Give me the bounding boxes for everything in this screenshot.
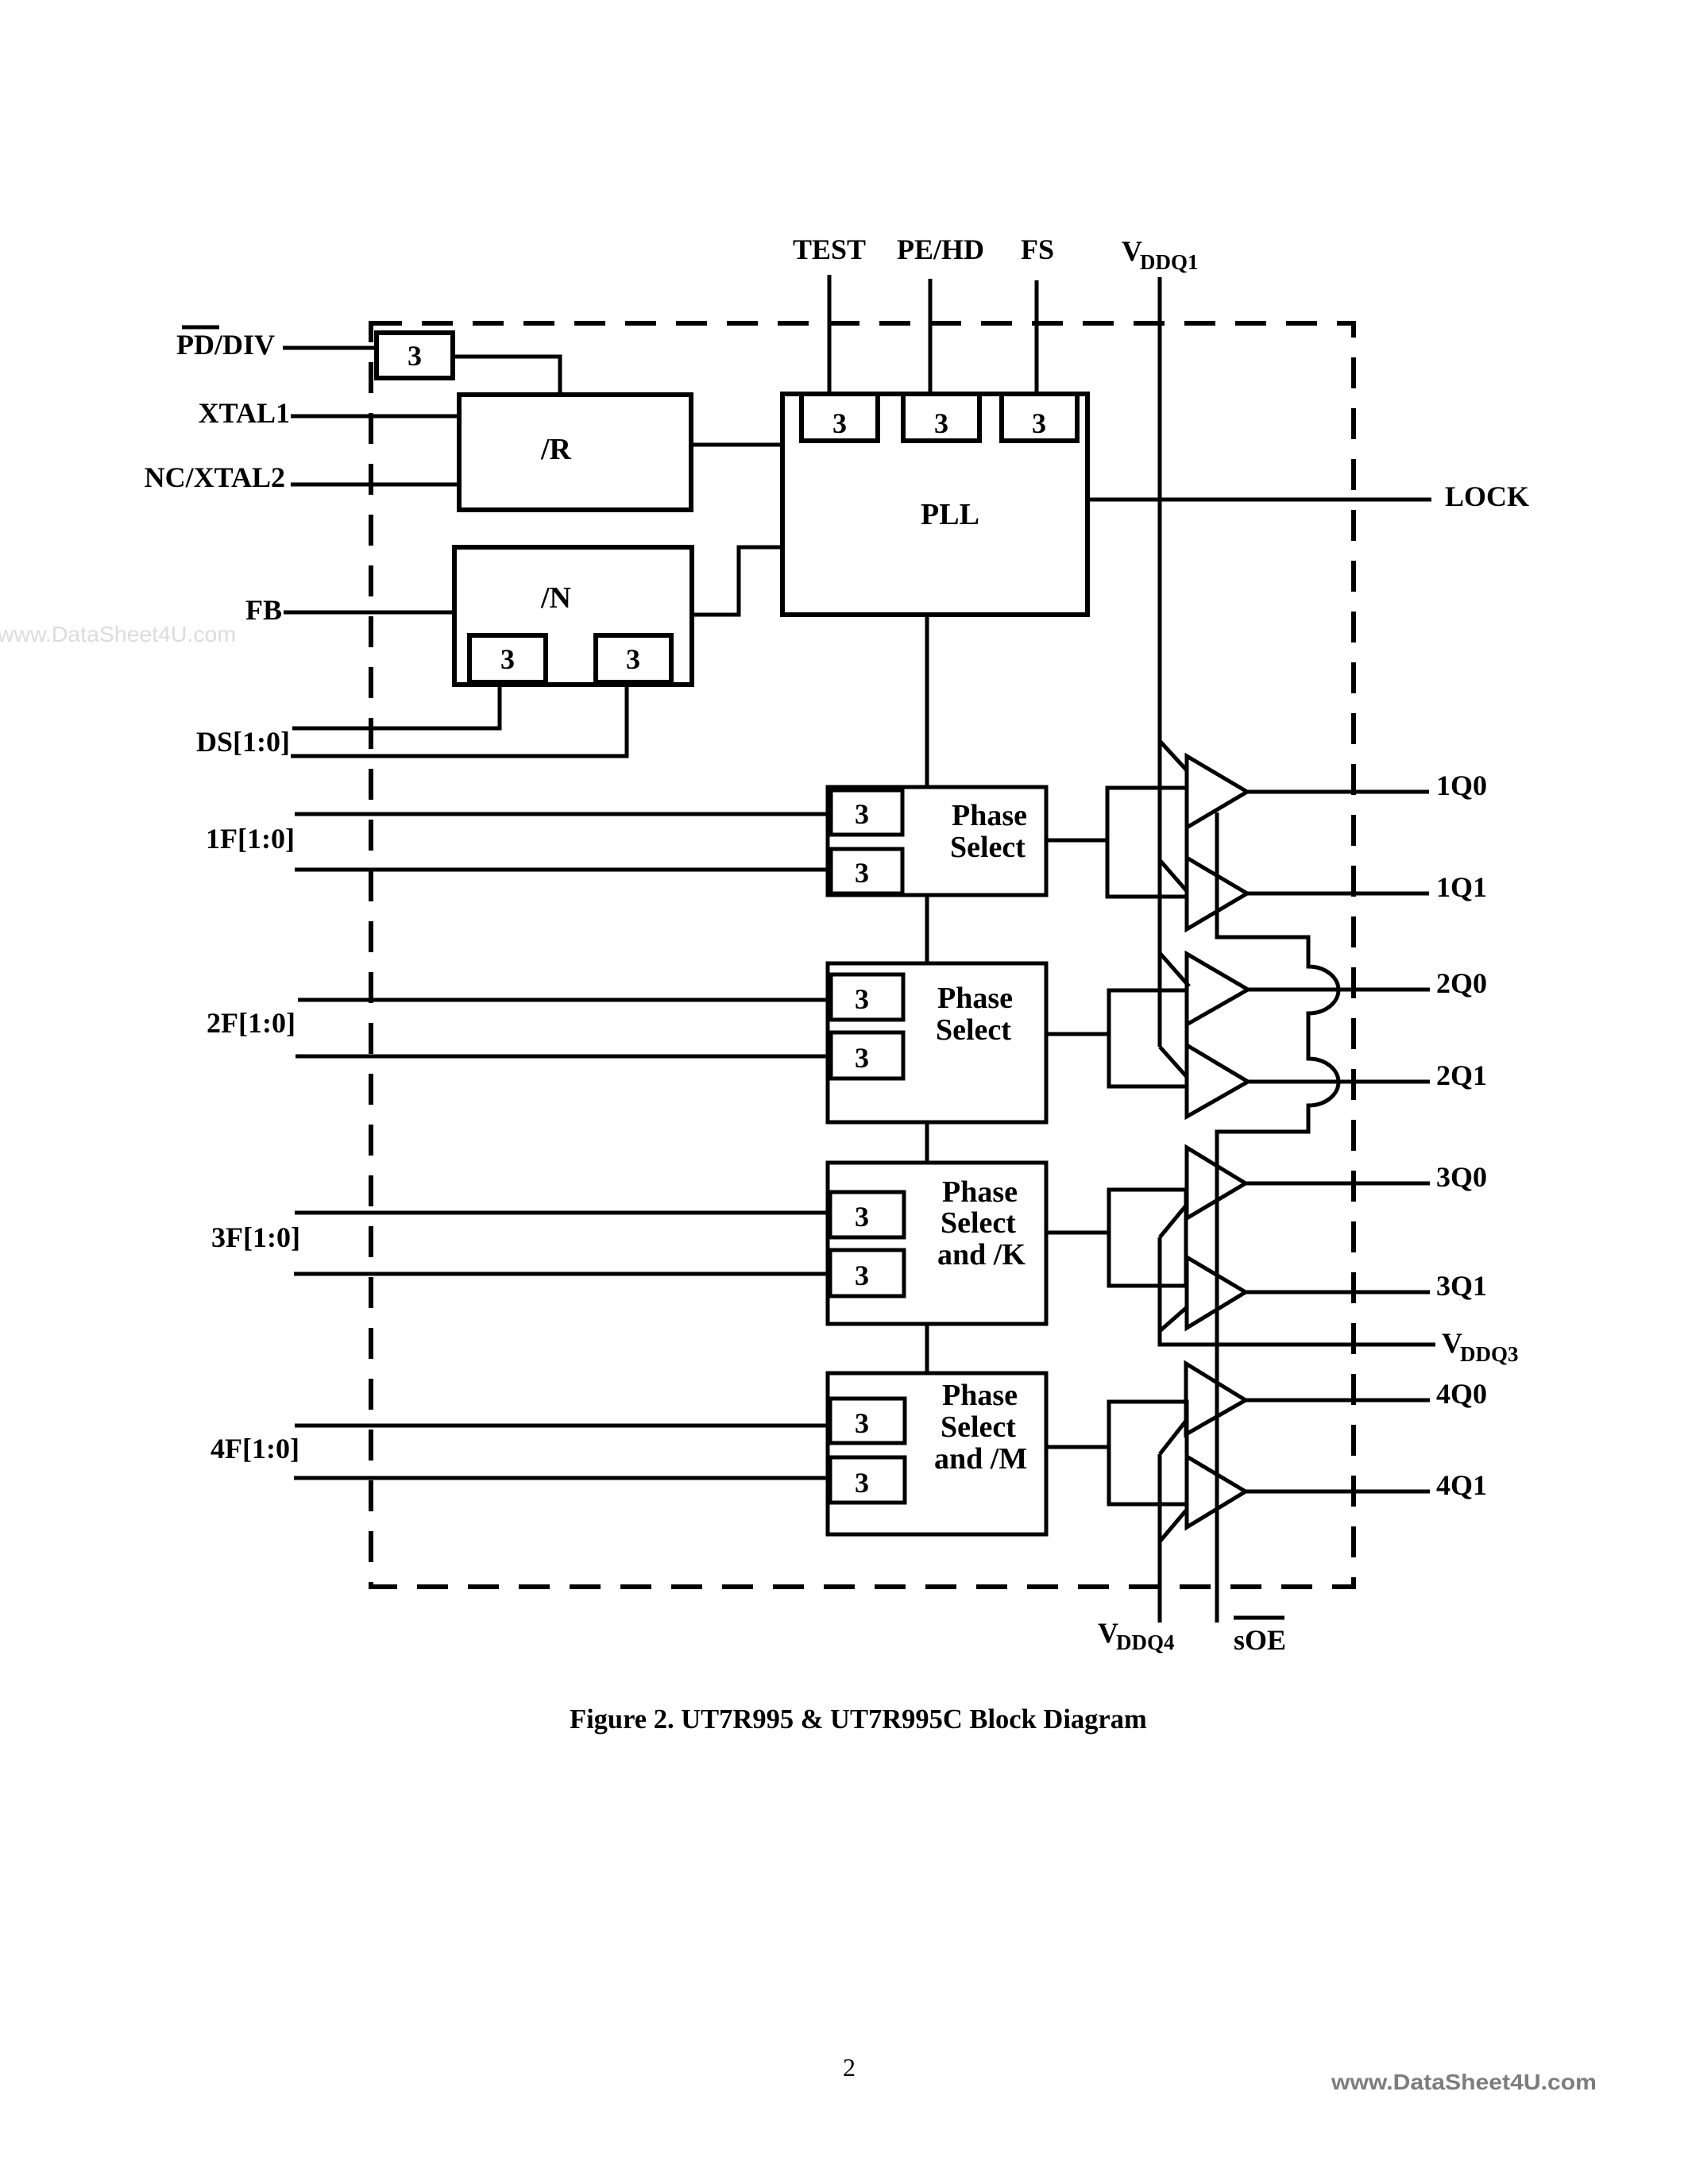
svg-text:TEST: TEST — [793, 233, 866, 265]
sOE routing line — [1217, 812, 1338, 1623]
pipeline 3 box (TEST) — [802, 394, 878, 441]
power rail VDDQ3 — [1160, 1237, 1435, 1345]
wire 4Q0 output — [1246, 1399, 1430, 1403]
block /N divider — [454, 547, 692, 685]
wire FS — [1035, 280, 1039, 394]
pipeline 3 box (FS) — [1002, 394, 1077, 441]
divider 3 box (PD/DIV) — [377, 333, 453, 378]
svg-text:Phase: Phase — [942, 1379, 1018, 1412]
wire DS bit0 — [292, 682, 500, 728]
svg-text:2Q1: 2Q1 — [1436, 1059, 1487, 1091]
power rail VDDQ4 — [1158, 1454, 1162, 1623]
output latch box group 4 — [1109, 1402, 1187, 1504]
svg-text:3: 3 — [408, 340, 422, 372]
svg-text:4F[1:0]: 4F[1:0] — [211, 1433, 299, 1464]
svg-text:/R: /R — [540, 433, 572, 466]
svg-text:XTAL1: XTAL1 — [199, 397, 290, 429]
wire XTAL1 to /R — [291, 415, 459, 419]
svg-text:PLL: PLL — [921, 498, 979, 531]
input 3 box (4F1) — [830, 1457, 905, 1503]
VDDQ tap 2Q0 — [1160, 953, 1189, 986]
output latch box group 3 — [1109, 1190, 1186, 1286]
wire PS3 to PS4 — [925, 1324, 929, 1373]
wire 4F bit0 — [295, 1424, 828, 1428]
block phase select 4 and /M — [828, 1373, 1046, 1534]
svg-text:3: 3 — [855, 1407, 869, 1439]
svg-text:Select: Select — [936, 1013, 1011, 1047]
wire 4Q1 output — [1246, 1490, 1430, 1494]
power rail VDDQ1 — [1158, 277, 1162, 1047]
wire 3F bit1 — [294, 1272, 828, 1276]
chip boundary dashed box — [371, 323, 1354, 1587]
svg-text:3: 3 — [855, 983, 869, 1015]
wire 1Q1 output — [1247, 892, 1429, 896]
buffer 1Q1 — [1187, 858, 1247, 929]
svg-text:4Q1: 4Q1 — [1436, 1469, 1487, 1501]
divider 3 box (/N right) — [596, 635, 671, 682]
svg-text:and /K: and /K — [937, 1238, 1026, 1271]
svg-text:Select: Select — [950, 831, 1026, 864]
svg-text:www.DataSheet4U.com: www.DataSheet4U.com — [1331, 2070, 1597, 2094]
svg-text:NC/XTAL2: NC/XTAL2 — [145, 461, 285, 493]
block PLL — [782, 394, 1087, 615]
wire PS2 to PS3 — [925, 1122, 929, 1163]
divider 3 box (/N left) — [469, 635, 546, 682]
wire PS4 output — [1046, 1445, 1109, 1449]
wire TEST — [828, 275, 832, 394]
pipeline 3 box (PE/HD) — [903, 394, 979, 441]
svg-text:DDQ3: DDQ3 — [1460, 1342, 1519, 1366]
pin label PD/DIV with overline — [176, 327, 275, 361]
svg-text:FS: FS — [1021, 233, 1054, 265]
wire FB to /N — [284, 611, 454, 615]
pin label sOE with overline — [1234, 1618, 1286, 1656]
wire PS1 output — [1046, 839, 1107, 843]
svg-text:3: 3 — [934, 407, 948, 439]
VDDQ tap 1Q1 — [1160, 860, 1187, 891]
svg-text:DDQ1: DDQ1 — [1140, 250, 1199, 274]
svg-text:3: 3 — [626, 643, 640, 675]
wire 3Q0 output — [1246, 1182, 1430, 1186]
wire 3F bit0 — [295, 1211, 828, 1215]
buffer 2Q0 — [1187, 954, 1248, 1024]
input 3 box (2F1) — [831, 1032, 903, 1078]
wire 4F bit1 — [294, 1476, 828, 1480]
svg-text:3: 3 — [855, 798, 869, 830]
wire 3Q1 output — [1246, 1291, 1430, 1295]
VDDQ tap 1Q0 — [1160, 741, 1187, 770]
svg-text:PD/DIV: PD/DIV — [176, 329, 275, 361]
wire /N to PLL — [692, 547, 782, 615]
svg-text:Figure 2. UT7R995 & UT7R995C B: Figure 2. UT7R995 & UT7R995C Block Diagr… — [570, 1704, 1147, 1734]
svg-text:DS[1:0]: DS[1:0] — [196, 726, 290, 758]
block phase select 3 and /K — [828, 1163, 1046, 1324]
pin label VDDQ4 — [1098, 1617, 1175, 1654]
svg-text:Phase: Phase — [942, 1175, 1018, 1209]
svg-text:Phase: Phase — [937, 982, 1013, 1015]
wire PD/DIV to divider — [283, 346, 377, 350]
input 3 box (1F0) — [831, 790, 902, 835]
svg-text:3: 3 — [832, 407, 847, 439]
svg-text:3Q0: 3Q0 — [1436, 1161, 1487, 1193]
svg-text:/N: /N — [540, 581, 571, 615]
wire DS bit1 — [291, 682, 627, 756]
svg-text:FB: FB — [245, 594, 282, 626]
wire 1F bit0 — [295, 812, 828, 816]
wire 1F bit1 — [295, 868, 828, 872]
svg-text:2Q0: 2Q0 — [1436, 967, 1487, 999]
buffer 4Q1 — [1187, 1457, 1246, 1527]
svg-text:3: 3 — [855, 1042, 869, 1074]
svg-text:LOCK: LOCK — [1445, 480, 1529, 512]
buffer 2Q1 — [1187, 1045, 1248, 1117]
input 3 box (2F0) — [831, 974, 903, 1020]
VDDQ tap 3Q1 — [1160, 1308, 1186, 1331]
svg-text:and /M: and /M — [934, 1442, 1027, 1476]
svg-text:3: 3 — [500, 643, 515, 675]
svg-text:www.DataSheet4U.com: www.DataSheet4U.com — [0, 622, 236, 646]
block phase select 2 — [828, 963, 1046, 1122]
wire PS3 output — [1046, 1231, 1109, 1235]
input 3 box (3F0) — [830, 1192, 904, 1237]
buffer 3Q0 — [1187, 1148, 1246, 1218]
wire 1Q0 output — [1247, 790, 1429, 794]
svg-text:Phase: Phase — [952, 799, 1027, 832]
buffer 1Q0 — [1187, 756, 1247, 828]
input 3 box (3F1) — [830, 1250, 904, 1296]
svg-text:3: 3 — [1032, 407, 1046, 439]
output latch box group 1 — [1107, 788, 1187, 897]
wire LOCK — [1087, 498, 1431, 502]
pin label VDDQ3 — [1442, 1327, 1519, 1366]
wire 2F bit0 — [298, 998, 828, 1002]
wire PE/HD — [929, 279, 933, 394]
svg-text:DDQ4: DDQ4 — [1116, 1630, 1175, 1654]
pin label VDDQ1 — [1122, 235, 1199, 274]
block phase select 1 — [828, 787, 1046, 895]
buffer 4Q0 — [1186, 1364, 1246, 1434]
wire 2Q0 output — [1248, 988, 1430, 992]
svg-text:PE/HD: PE/HD — [897, 233, 984, 265]
svg-text:3: 3 — [855, 1467, 869, 1499]
svg-text:2F[1:0]: 2F[1:0] — [207, 1007, 295, 1039]
svg-text:3F[1:0]: 3F[1:0] — [211, 1221, 300, 1253]
svg-text:3: 3 — [855, 857, 869, 889]
svg-text:Select: Select — [941, 1206, 1016, 1240]
svg-text:3: 3 — [855, 1260, 869, 1291]
svg-text:3Q1: 3Q1 — [1436, 1270, 1487, 1302]
wire PS1 to PS2 — [925, 895, 929, 963]
svg-text:1Q0: 1Q0 — [1436, 770, 1487, 801]
VDDQ tap 4Q0 — [1160, 1421, 1186, 1454]
VDDQ tap 4Q1 — [1160, 1511, 1186, 1542]
VDDQ tap 3Q0 — [1160, 1206, 1186, 1237]
block /R divider — [459, 395, 691, 510]
svg-text:sOE: sOE — [1234, 1624, 1286, 1656]
svg-text:1F[1:0]: 1F[1:0] — [206, 823, 295, 855]
wire 2F bit1 — [295, 1055, 828, 1059]
wire divider to /R — [453, 357, 560, 395]
buffer 3Q1 — [1187, 1257, 1246, 1328]
wire PLL to phase select 1 — [925, 615, 929, 787]
svg-text:1Q1: 1Q1 — [1436, 871, 1487, 903]
VDDQ tap 2Q1 — [1160, 1047, 1187, 1077]
svg-text:4Q0: 4Q0 — [1436, 1378, 1487, 1410]
svg-text:3: 3 — [855, 1201, 869, 1233]
output latch box group 2 — [1109, 990, 1187, 1086]
wire NC/XTAL2 to /R — [291, 483, 459, 487]
svg-text:Select: Select — [941, 1410, 1016, 1444]
input 3 box (4F0) — [830, 1399, 905, 1443]
svg-text:2: 2 — [843, 2053, 856, 2082]
wire /R to PLL — [691, 443, 782, 447]
wire PS2 output — [1046, 1032, 1109, 1036]
wire 2Q1 output — [1248, 1080, 1430, 1084]
input 3 box (1F1) — [831, 849, 902, 893]
